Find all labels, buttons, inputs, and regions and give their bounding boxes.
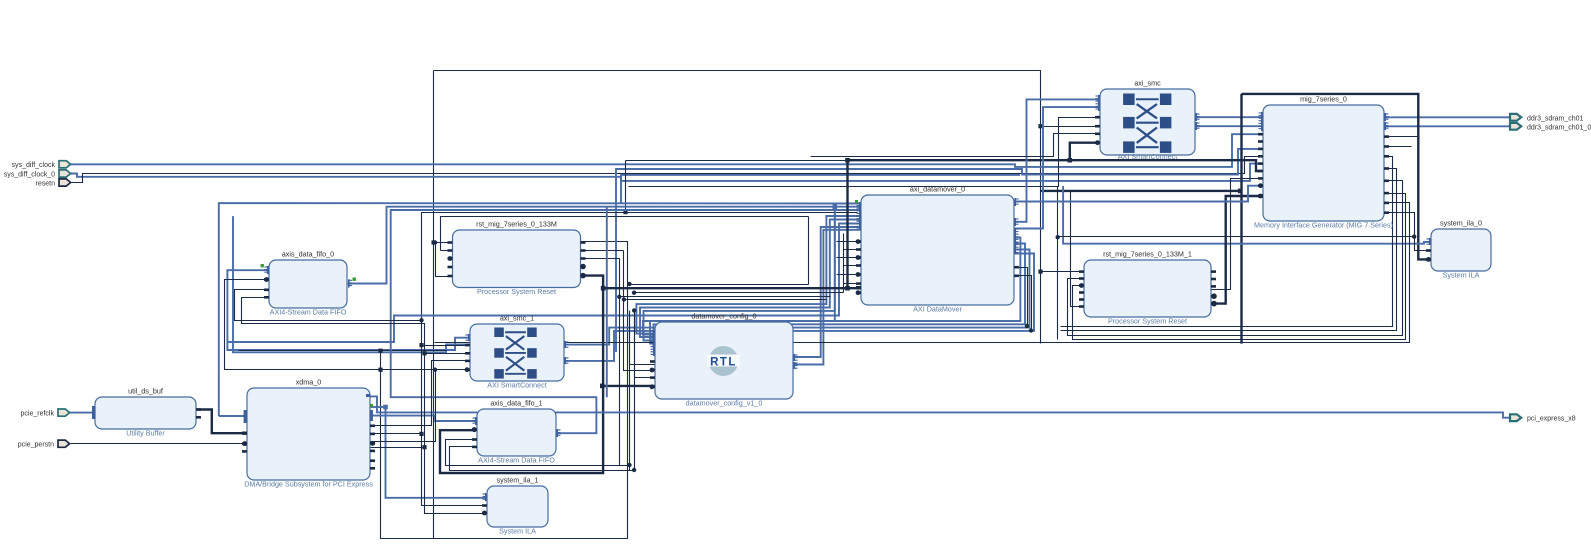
block rst_mig_7series_0_133M <box>453 220 581 297</box>
svg-text:axi_smc_1: axi_smc_1 <box>500 314 534 323</box>
svg-text:axi_datamover_0: axi_datamover_0 <box>910 185 965 194</box>
svg-text:axis_data_fifo_1: axis_data_fifo_1 <box>490 399 542 408</box>
wire datamover mm2s to config b <box>640 220 861 338</box>
svg-text:Processor System Reset: Processor System Reset <box>477 287 556 296</box>
junction config nets <box>632 308 636 312</box>
wire black x619 vertical <box>619 259 621 466</box>
svg-text:datamover_config_v1_0: datamover_config_v1_0 <box>686 399 763 408</box>
svg-text:pcie_refclk: pcie_refclk <box>21 410 55 417</box>
wire to config pin1 <box>630 311 656 365</box>
junction smc1 pin2 branch <box>422 351 426 355</box>
wire dm pin3 <box>844 249 862 251</box>
wire fifo1 m_axis loop <box>391 210 861 433</box>
wire ui_clk top run <box>434 71 1041 344</box>
wire to config pin3 <box>635 311 656 378</box>
wire thin y160 <box>626 160 848 162</box>
wire y156 to smc pin3 <box>811 134 1101 157</box>
wire xdma aclk to smc1 <box>370 361 471 426</box>
junction xdma pin2 <box>422 445 426 449</box>
wire dm out lower a <box>1015 268 1028 327</box>
junction y212 <box>623 210 627 214</box>
pins rst_mig_7series_0_133M <box>448 241 586 278</box>
wire config out a to datamover <box>793 227 861 357</box>
wire rst0 out x623 top <box>581 250 624 252</box>
junction ui_clk rst1 <box>1038 270 1042 274</box>
svg-text:sys_diff_clock_0: sys_diff_clock_0 <box>4 171 55 178</box>
wire rst0 in2 <box>441 250 453 252</box>
wire config out b to datamover <box>793 230 861 365</box>
svg-text:system_ila_0: system_ila_0 <box>1440 219 1482 228</box>
wire h2c to ila1 <box>386 407 488 498</box>
wire mig out b <box>1061 169 1397 331</box>
pins rst_mig_7series_0_133M_1 <box>1079 270 1217 308</box>
wire smc to mig s_axi <box>1195 116 1263 118</box>
wire black x1057 vertical <box>1057 187 1059 340</box>
wire xdma pin2 to run <box>371 447 425 449</box>
wire datamover mm2s to config a <box>636 216 861 334</box>
svg-text:util_ds_buf: util_ds_buf <box>128 387 163 396</box>
wire ui_clk left vertical <box>433 71 435 539</box>
pins axi_smc_1 <box>465 334 569 372</box>
wire datamover sts to config d <box>654 244 1026 347</box>
wire datamover m_axi2 to smc s01 <box>1014 107 1100 228</box>
wire black y296 right <box>620 296 831 298</box>
wire xdma m_axis_h2c <box>370 406 386 408</box>
wire into dm7 <box>635 292 844 294</box>
wire fifo0 m_axis to datamover <box>348 207 861 284</box>
port resetn <box>36 179 71 187</box>
wire xdma m_axis to fifo1 <box>370 416 477 421</box>
wire bus x606 <box>606 207 608 397</box>
wire datamover to smc1 m01 <box>564 254 1034 361</box>
wire mig to ila0 pin <box>1385 213 1432 251</box>
wire bus to ila0 <box>1063 186 1431 244</box>
block xdma_0 <box>244 378 373 489</box>
pins system_ila_0 <box>1426 238 1431 262</box>
wire ddr3_sdram_ch01_0 <box>1384 125 1510 127</box>
junction thick <box>1068 158 1073 163</box>
wire thin x625 vertical <box>625 161 627 213</box>
wire fifo0 aresetn loop <box>225 280 471 370</box>
pins axis_data_fifo_1 <box>472 417 561 448</box>
svg-text:Memory Interface Generator (MI: Memory Interface Generator (MIG 7 Series… <box>1254 221 1393 230</box>
wire fifo0 in run2 <box>242 298 488 514</box>
junction fifo1 dot <box>472 427 477 432</box>
wire dm pin6 <box>837 274 862 276</box>
block axi_smc <box>1100 79 1195 161</box>
wire mig thick left vertical <box>1240 94 1242 344</box>
svg-text:mig_7series_0: mig_7series_0 <box>1300 95 1347 104</box>
wire datamover m_axi to smc s00 <box>1014 99 1100 221</box>
block axis_data_fifo_0 <box>269 250 347 317</box>
block rst_mig_7series_0_133M_1 <box>1084 250 1211 326</box>
junction rst1 out <box>1211 301 1216 306</box>
wire thick rst0 aresetn to dm <box>603 287 861 289</box>
wire net box bottom <box>381 242 628 539</box>
svg-text:Processor System Reset: Processor System Reset <box>1108 317 1187 326</box>
junction smc1 aclk branch <box>419 343 423 347</box>
wire dm pin1 <box>844 283 862 285</box>
wire ui_clk to rst0 <box>434 242 453 244</box>
wire datamover sts to config c <box>650 238 1020 344</box>
wire sys_diff_clock to mig <box>70 134 1263 167</box>
svg-text:system_ila_1: system_ila_1 <box>497 476 539 485</box>
junction rst0 in3 <box>433 240 437 244</box>
port pcie_perstn <box>18 440 70 448</box>
block axi_datamover_0 <box>861 185 1014 314</box>
wire dm pin5 <box>844 265 862 267</box>
wire black y299 right <box>624 299 827 301</box>
wire rst0 in3 <box>436 243 453 277</box>
wire black y237 long <box>1058 236 1415 238</box>
wire s_axis branch to config <box>644 207 835 341</box>
junction thick frame <box>1238 189 1243 194</box>
wire rst0 aresetn to config <box>602 385 655 387</box>
svg-text:rst_mig_7series_0_133M_1: rst_mig_7series_0_133M_1 <box>1103 250 1192 259</box>
junction aresetn riser <box>433 368 437 372</box>
wire rst0 peripheral_aresetn to fifo1 <box>440 276 603 473</box>
svg-text:System ILA: System ILA <box>1443 271 1480 280</box>
junction dm lower b <box>1029 328 1033 332</box>
wire datamover comb vertical <box>843 234 845 293</box>
wire to smc1 s00 <box>227 338 470 350</box>
wire mig dcm_locked to rst1 <box>1068 181 1403 336</box>
svg-text:pci_express_x8: pci_express_x8 <box>1527 416 1576 423</box>
port pcie_refclk <box>21 409 70 417</box>
wire mig out calib <box>1385 136 1419 138</box>
icon RTL datamover_config <box>707 346 740 376</box>
wire fifo1 aclk run <box>446 440 630 466</box>
wire to smc1 s01 <box>233 216 470 352</box>
wire datamover mm2s to fifo0 <box>227 224 861 343</box>
wire dm pin2 <box>837 241 862 243</box>
junction perstn <box>243 441 248 446</box>
svg-text:AXI SmartConnect: AXI SmartConnect <box>487 381 547 390</box>
wire bus into xdma s_axi <box>219 415 247 417</box>
junction x634 y292 <box>632 291 636 295</box>
junction datamover s_axis <box>833 204 838 209</box>
junction fifo1 aclk <box>627 463 631 467</box>
svg-text:Utility Buffer: Utility Buffer <box>126 429 165 438</box>
svg-text:DMA/Bridge Subsystem for PCI E: DMA/Bridge Subsystem for PCI Express <box>244 480 373 489</box>
wire mig thick frame to ila0 <box>1242 94 1432 260</box>
junction dm thick <box>845 286 850 291</box>
wire fifo1 in2 run <box>450 447 635 471</box>
wire util_ds_buf to xdma <box>197 410 248 434</box>
block axis_data_fifo_1 <box>477 399 556 465</box>
svg-text:xdma_0: xdma_0 <box>296 378 322 387</box>
svg-text:AXI4-Stream Data FIFO: AXI4-Stream Data FIFO <box>270 308 347 317</box>
pins util_ds_buf <box>92 406 201 419</box>
block util_ds_buf <box>95 387 196 438</box>
wire bus y169 <box>616 149 1263 352</box>
junction xdma aclk2 <box>419 432 423 436</box>
wire dm bus y201 to mig <box>1014 186 1263 202</box>
port sys_diff_clock_0 <box>4 170 71 178</box>
wire dm out lower b <box>1015 276 1032 331</box>
svg-text:axis_data_fifo_0: axis_data_fifo_0 <box>282 250 334 259</box>
wire smc to mig s_axi b <box>1195 125 1263 127</box>
wire black x634 vertical <box>634 311 636 471</box>
junction ui_clk rst0 <box>432 240 436 244</box>
wire black x629 vertical <box>629 311 631 471</box>
wire thick riser to smc <box>1070 143 1100 161</box>
junction fifo1 in2 <box>632 468 636 472</box>
block system_ila_0 <box>1431 219 1491 280</box>
pins system_ila_1 <box>482 493 487 515</box>
wire fifo0 aclk run <box>235 290 488 506</box>
wire black y216 <box>441 217 809 251</box>
wire mig out stub <box>1385 146 1412 148</box>
svg-text:AXI SmartConnect: AXI SmartConnect <box>1118 152 1178 161</box>
wire rst0 out x619 top <box>581 258 620 260</box>
port ddr3_sdram_ch01_0 <box>1510 123 1591 131</box>
wire sys_diff_clock_0 to mig <box>70 164 1263 181</box>
wire resetn run <box>71 157 1264 183</box>
wire xdma aresetn riser <box>370 370 436 442</box>
svg-text:axi_smc: axi_smc <box>1134 79 1161 88</box>
junction ui_clk smc <box>1038 124 1042 128</box>
pins axi_smc <box>1095 95 1200 145</box>
wire branch smc1 pin2 <box>425 353 471 355</box>
junction x1057 <box>1056 235 1060 239</box>
block datamover_config_0 <box>655 312 793 408</box>
wire thick y191 to mig frame <box>1041 190 1241 192</box>
svg-text:datamover_config_0: datamover_config_0 <box>691 312 756 321</box>
junction rst0 thick config <box>600 384 605 389</box>
junction h2c <box>383 405 388 410</box>
wire ddr3_sdram_ch01 <box>1384 116 1510 118</box>
wire aclk run y186 <box>629 118 1101 187</box>
junction rst0 thick <box>601 286 606 291</box>
wire rst1 out2 to mig <box>1212 179 1264 290</box>
port sys_diff_clock <box>12 161 71 169</box>
wire pcie_perstn to xdma <box>71 443 246 445</box>
pins mig_7series_0 <box>1258 112 1389 214</box>
wire bus y174 <box>621 175 1020 203</box>
wire ui_clk to smc aclk <box>1041 126 1101 128</box>
pins axi_datamover_0 <box>855 198 1019 295</box>
block mig_7series_0 <box>1254 95 1393 230</box>
block system_ila_1 <box>487 476 548 536</box>
wire black y212 <box>422 213 858 321</box>
svg-text:System ILA: System ILA <box>499 527 536 536</box>
wire pcie_refclk to util_ds_buf <box>70 412 95 414</box>
svg-text:ddr3_sdram_ch01: ddr3_sdram_ch01 <box>1527 115 1584 122</box>
svg-text:rst_mig_7series_0_133M: rst_mig_7series_0_133M <box>476 220 557 229</box>
wire datamover to smc1 m00 <box>564 250 1030 345</box>
pins axis_data_fifo_0 <box>261 264 356 299</box>
wire black x623 vertical to config pin2 <box>624 251 656 371</box>
junction fifo0 loop <box>378 368 382 372</box>
junction x619 y296 <box>617 295 621 299</box>
wire aresetn thick y160 <box>848 160 1264 171</box>
wire black y350 <box>239 350 447 352</box>
wire branch to config <box>643 207 835 335</box>
svg-text:resetn: resetn <box>36 180 56 187</box>
junction x623 y299 <box>622 297 626 301</box>
svg-text:sys_diff_clock: sys_diff_clock <box>12 162 56 169</box>
wire mig out long black <box>435 203 1410 343</box>
icon axi_smc crossbar <box>1123 94 1171 153</box>
wire to rst1 ext_reset <box>1071 191 1085 307</box>
wire xdma pin to run <box>371 433 422 435</box>
wire thick down to dm <box>846 160 848 288</box>
wire dm pin4 <box>837 257 862 259</box>
junction y350 box <box>378 349 382 353</box>
wire bus y203 to datamover <box>219 203 861 416</box>
svg-text:ddr3_sdram_ch01_0: ddr3_sdram_ch01_0 <box>1527 124 1591 131</box>
wire mig out a <box>1061 157 1393 327</box>
pins datamover_config_0 <box>650 330 798 389</box>
svg-text:pcie_perstn: pcie_perstn <box>18 442 54 449</box>
junction dm lower a <box>1025 324 1029 328</box>
port pci_express_x8 <box>1510 414 1576 422</box>
wire mig out c <box>1073 194 1406 340</box>
block axi_smc_1 <box>470 314 564 390</box>
junction x629 y283 <box>627 282 631 286</box>
pins xdma_0 <box>242 394 375 470</box>
icon axi_smc_1 crossbar <box>494 328 536 379</box>
junction x421 y320 <box>419 318 423 322</box>
port ddr3_sdram_ch01 <box>1510 114 1584 122</box>
junction thick x847 <box>845 158 850 163</box>
svg-text:AXI DataMover: AXI DataMover <box>913 305 962 314</box>
wire xdma pcie_mgt to pci_express_x8 <box>370 396 1510 417</box>
svg-text:RTL: RTL <box>710 357 737 369</box>
wire ui_clk to rst1 <box>1041 271 1085 273</box>
wire rst1 peripheral_aresetn to mig <box>1211 196 1263 304</box>
svg-text:AXI4-Stream Data FIFO: AXI4-Stream Data FIFO <box>478 456 555 465</box>
wire branch smc1 aclk <box>422 345 471 347</box>
wire into dm6 <box>630 284 809 286</box>
wire datamover loop left vertical <box>808 217 810 285</box>
junction y237 <box>1412 235 1416 239</box>
junction aresetn dot <box>370 441 375 446</box>
